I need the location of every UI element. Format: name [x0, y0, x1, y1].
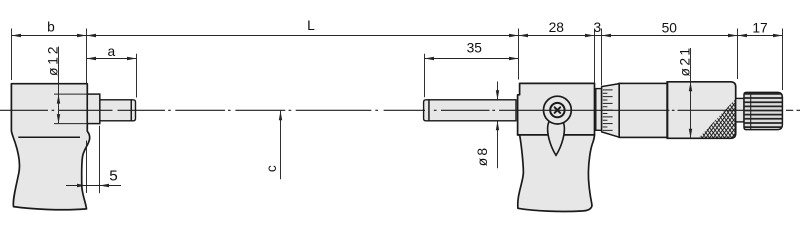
svg-text:5: 5	[109, 167, 117, 184]
svg-text:c: c	[264, 165, 279, 172]
svg-text:ø12: ø12	[46, 44, 61, 76]
svg-text:35: 35	[467, 40, 483, 55]
svg-text:b: b	[47, 20, 55, 35]
svg-text:ø21: ø21	[677, 46, 692, 77]
svg-text:L: L	[307, 18, 315, 33]
svg-text:50: 50	[662, 21, 678, 36]
svg-text:28: 28	[549, 20, 565, 35]
svg-text:a: a	[107, 44, 115, 59]
svg-text:17: 17	[752, 21, 767, 36]
svg-text:3: 3	[593, 20, 601, 35]
svg-text:ø8: ø8	[475, 146, 490, 167]
